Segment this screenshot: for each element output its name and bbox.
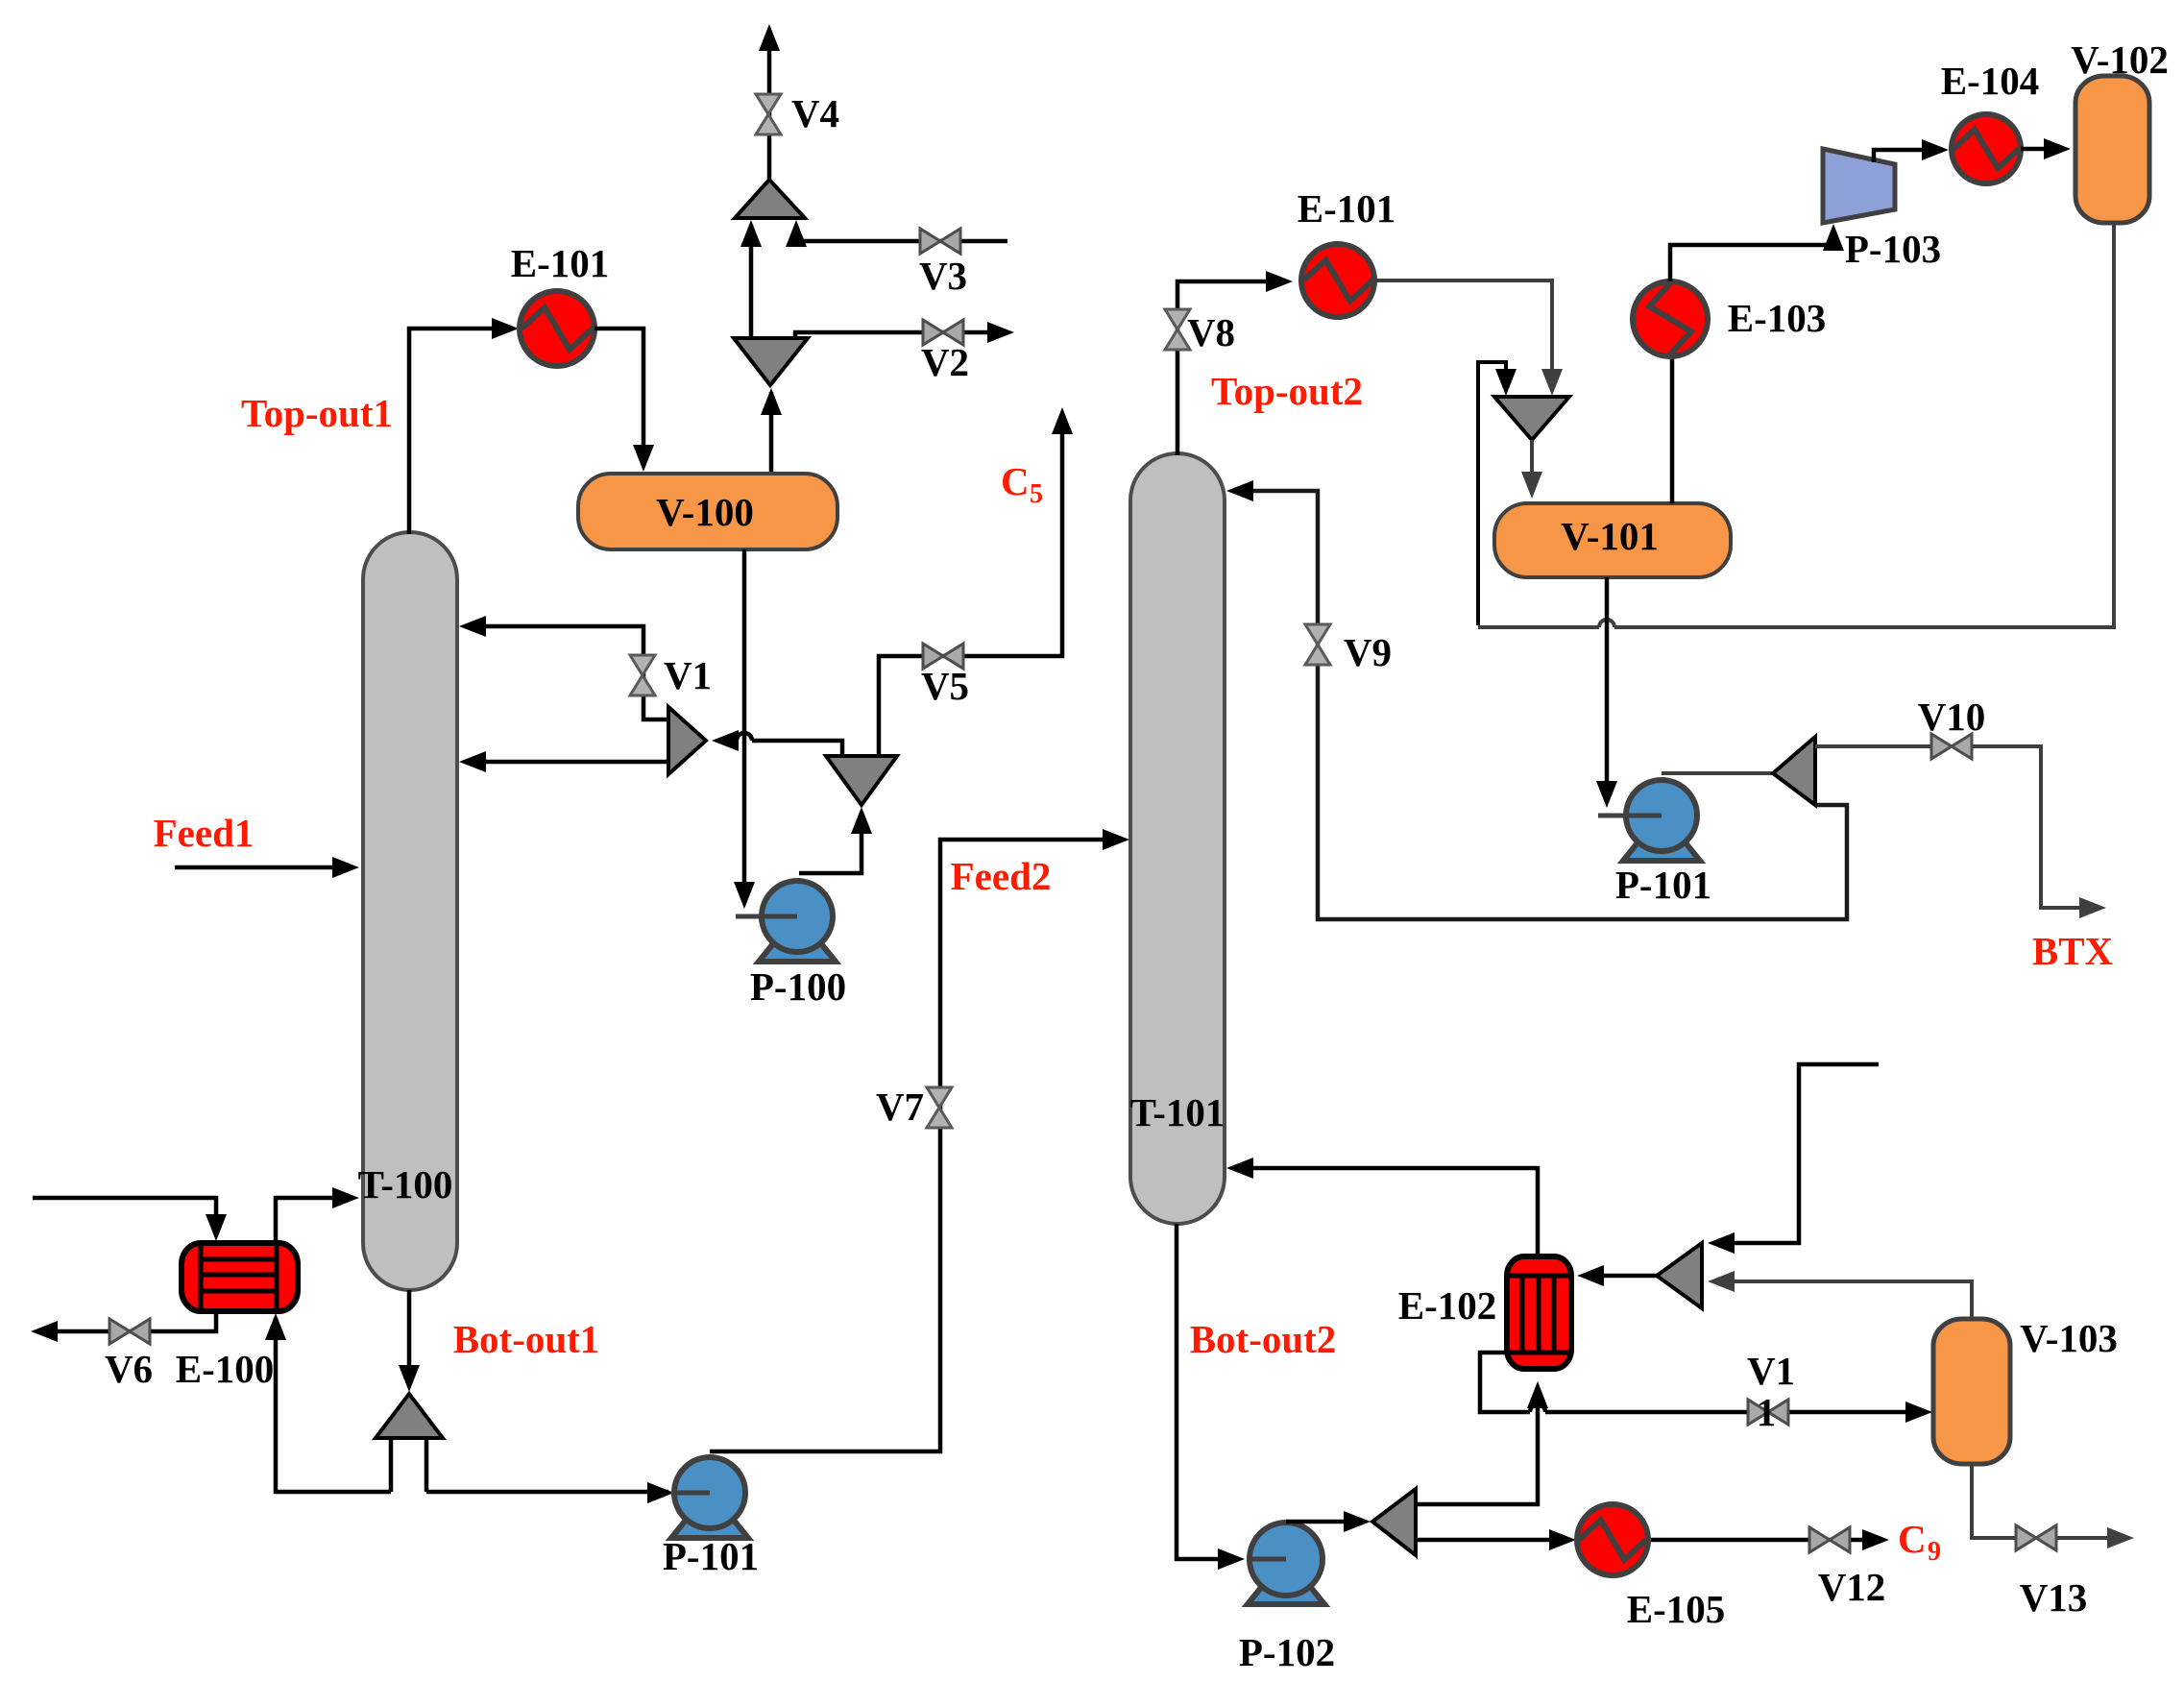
label V9: [1344, 630, 1392, 674]
label V7: [876, 1085, 924, 1129]
wire V-103 bottoms through V13: [1972, 1464, 2134, 1548]
label P-103: [1845, 227, 1941, 271]
svg-text:E-104: E-104: [1941, 59, 2040, 103]
valve V1: [630, 655, 655, 695]
label V13: [2020, 1575, 2088, 1620]
vessel V-101: [1494, 503, 1731, 577]
svg-text:P-100: P-100: [750, 964, 846, 1009]
wire mixer to E-102 shell: [1577, 1265, 1657, 1286]
label C9: [1898, 1517, 1941, 1567]
mixer triangle to V4 (up triangle): [735, 180, 805, 218]
wire T-101 top through V8 to E-101: [1177, 271, 1293, 455]
svg-text:Bot-out1: Bot-out1: [453, 1317, 600, 1361]
label V1: [664, 653, 712, 697]
reflux splitter triangle (right triangle): [668, 707, 706, 774]
svg-text:Feed1: Feed1: [154, 811, 255, 855]
svg-text:T-100: T-100: [358, 1162, 453, 1207]
heat exchanger E-102 (reboiler 2): [1507, 1256, 1571, 1369]
label V6: [105, 1347, 153, 1391]
label E-103: [1728, 296, 1827, 340]
heat exchanger E-105: [1577, 1504, 1648, 1575]
label E-101 condenser1: [511, 241, 610, 285]
svg-text:V3: V3: [919, 254, 967, 298]
svg-text:V4: V4: [791, 91, 839, 135]
valve V10: [1931, 734, 1972, 759]
heat exchanger E-104: [1952, 114, 2021, 183]
wire V-100 liquid to P-100: [734, 549, 797, 916]
wire vent through V4: [759, 24, 780, 182]
svg-text:C: C: [1001, 459, 1030, 503]
label V-102: [2071, 37, 2169, 82]
label V-101: [1561, 514, 1659, 558]
svg-text:P-101: P-101: [1615, 863, 1711, 907]
svg-text:V-103: V-103: [2020, 1316, 2118, 1360]
wire P-100 discharge: [799, 807, 872, 873]
valve V8: [1165, 309, 1190, 350]
label P-100: [750, 964, 846, 1009]
heat exchanger E-103: [1633, 281, 1708, 356]
valve V7: [927, 1087, 952, 1128]
wire P-101 discharge: [1662, 771, 1773, 775]
wire V-101 vapor to E-103: [1670, 356, 1675, 503]
wire E-100 vapor return to T-100: [276, 1187, 359, 1243]
wire E-101 to merge tee: [1374, 280, 1563, 396]
label E-100: [176, 1347, 275, 1391]
label V10: [1918, 695, 1986, 739]
svg-text:E-101: E-101: [511, 241, 610, 285]
svg-text:V12: V12: [1818, 1565, 1886, 1609]
svg-text:E-105: E-105: [1627, 1587, 1726, 1631]
tee above P-100 (down triangle): [826, 756, 897, 805]
label E-104: [1941, 59, 2040, 103]
wire T-100 top to E-101: [409, 318, 519, 534]
wire T-101 bottoms to P-102: [1177, 1224, 1286, 1570]
svg-text:V9: V9: [1344, 630, 1392, 674]
wire reflux through V9 to T-101: [1226, 480, 1847, 919]
label T-100: [358, 1162, 453, 1207]
wire BTX product through V10: [1815, 746, 2106, 918]
wire T-100 bottoms: [399, 1290, 420, 1392]
wire V3 line: [786, 220, 1007, 247]
label Top-out2: [1211, 369, 1363, 413]
column T-100: [363, 532, 457, 1290]
wire E-103 to P-103: [1670, 224, 1844, 281]
svg-text:BTX: BTX: [2032, 929, 2114, 973]
svg-text:V13: V13: [2020, 1575, 2088, 1620]
merge tee above V-101 (down triangle): [1494, 397, 1569, 440]
wire splitter to E-100: [265, 1313, 391, 1492]
label E-102: [1398, 1283, 1497, 1328]
label V11: [1747, 1349, 1795, 1434]
heat exchanger E-101 (condenser 2): [1301, 244, 1374, 317]
vessel V-102: [2075, 76, 2149, 223]
heat exchanger E-100 (reboiler 1): [182, 1243, 298, 1311]
wire hot utility into E-100: [33, 1198, 227, 1241]
wire V-102 recycle: [1478, 223, 2114, 627]
wire P-100 splitter to reflux triangle: [712, 730, 842, 756]
wire E-102 vapor return to T-101: [1226, 1158, 1538, 1256]
wire E-104 to V-102: [2021, 138, 2071, 159]
svg-text:V7: V7: [876, 1085, 924, 1129]
wire circulation to E-102: [1416, 1381, 1548, 1504]
label Bot-out1: [453, 1317, 600, 1361]
wire lower reflux: [459, 751, 668, 772]
svg-text:C: C: [1898, 1517, 1927, 1561]
wire E-100 condensate out V6: [31, 1311, 216, 1342]
valve V3: [920, 229, 960, 254]
svg-text:Feed2: Feed2: [951, 854, 1052, 898]
svg-text:E-102: E-102: [1398, 1283, 1497, 1328]
svg-text:5: 5: [1030, 479, 1043, 509]
wire stub feed to mixer: [1708, 1064, 1879, 1254]
column T-101: [1130, 453, 1225, 1224]
label BTX: [2032, 929, 2114, 973]
wire Feed1: [175, 857, 359, 878]
svg-text:Top-out2: Top-out2: [1211, 369, 1363, 413]
svg-text:Bot-out2: Bot-out2: [1190, 1317, 1337, 1361]
label E-101 condenser2: [1298, 186, 1396, 231]
label V-100: [656, 490, 754, 534]
valve V12: [1809, 1527, 1850, 1552]
wire merge tee to V-101: [1521, 440, 1542, 499]
label Bot-out2: [1190, 1317, 1337, 1361]
wire splitter to V2: [795, 322, 1014, 343]
tee splitter above V-100 (down triangle): [734, 338, 808, 385]
svg-text:V8: V8: [1187, 310, 1235, 354]
wire P-103 to E-104: [1874, 139, 1949, 162]
svg-text:E-103: E-103: [1728, 296, 1827, 340]
svg-text:V-100: V-100: [656, 490, 754, 534]
label Feed2: [951, 854, 1052, 898]
wire E-102 bottom outlet to V11: [1480, 1353, 1932, 1423]
bottoms splitter tee (up triangle): [376, 1394, 443, 1492]
label C5: [1001, 459, 1043, 509]
label V3: [919, 254, 967, 298]
wire splitter to P-101: [426, 1482, 710, 1503]
wire V-101 liquid to P-101: [1596, 577, 1662, 816]
pump P-101 (reflux 2): [1623, 780, 1700, 861]
svg-text:V1: V1: [1747, 1349, 1795, 1393]
svg-text:V-102: V-102: [2071, 37, 2169, 82]
pump P-101 (bottoms 1): [671, 1457, 748, 1538]
wire V-100 vapor to splitter: [761, 388, 782, 472]
heat exchanger E-101 (condenser 1): [520, 291, 595, 366]
label V-103: [2020, 1316, 2118, 1360]
wire P-101 discharge to Feed2: [710, 829, 1129, 1451]
wire E-101 to V-100: [595, 329, 654, 472]
label P-102: [1239, 1630, 1335, 1674]
valve V13: [2016, 1525, 2056, 1550]
label V4: [791, 91, 839, 135]
label P-101 bottoms1: [663, 1534, 759, 1578]
valve V2: [923, 320, 963, 345]
wire splitter to mixer: [740, 220, 762, 336]
svg-text:P-102: P-102: [1239, 1630, 1335, 1674]
svg-text:9: 9: [1928, 1537, 1941, 1567]
wire upper reflux with V1: [459, 616, 668, 719]
svg-text:E-100: E-100: [176, 1347, 275, 1391]
wire recycle hook to merge tee: [1478, 362, 1517, 625]
svg-text:1: 1: [1757, 1390, 1777, 1434]
svg-text:V5: V5: [921, 664, 969, 708]
splitter tee at P-102 (left triangle): [1372, 1489, 1416, 1555]
svg-text:V1: V1: [664, 653, 712, 697]
label V2: [921, 340, 969, 384]
valve V5: [923, 644, 963, 669]
pump P-102: [1247, 1523, 1324, 1604]
svg-text:P-103: P-103: [1845, 227, 1941, 271]
compressor P-103: [1823, 149, 1895, 223]
pump P-100: [759, 881, 836, 962]
wire E-105 product line: [1416, 1529, 1889, 1550]
svg-text:V2: V2: [921, 340, 969, 384]
svg-text:V6: V6: [105, 1347, 153, 1391]
vessel V-100: [578, 474, 837, 549]
label V12: [1818, 1565, 1886, 1609]
label T-101: [1130, 1090, 1225, 1134]
label E-105: [1627, 1587, 1726, 1631]
valve V11: [1748, 1400, 1788, 1425]
valve V4: [756, 94, 781, 134]
svg-text:E-101: E-101: [1298, 186, 1396, 231]
wire product C5 through V5: [879, 407, 1073, 756]
svg-text:P-101: P-101: [663, 1534, 759, 1578]
wire P-102 discharge: [1286, 1511, 1371, 1532]
label P-101 reflux2: [1615, 863, 1711, 907]
wire V-103 vapor to mixer: [1708, 1271, 1972, 1319]
label Feed1: [154, 811, 255, 855]
valve V9: [1305, 624, 1330, 665]
label Top-out1: [241, 391, 393, 435]
label V5: [921, 664, 969, 708]
svg-text:T-101: T-101: [1130, 1090, 1225, 1134]
splitter tee at P-101 (left triangle): [1773, 737, 1815, 805]
vessel V-103: [1933, 1319, 2010, 1464]
svg-text:Top-out1: Top-out1: [241, 391, 393, 435]
svg-text:V10: V10: [1918, 695, 1986, 739]
svg-text:V-101: V-101: [1561, 514, 1659, 558]
mixer tee at E-102 (left triangle): [1657, 1243, 1702, 1308]
valve V6: [109, 1319, 150, 1344]
label V8: [1187, 310, 1235, 354]
